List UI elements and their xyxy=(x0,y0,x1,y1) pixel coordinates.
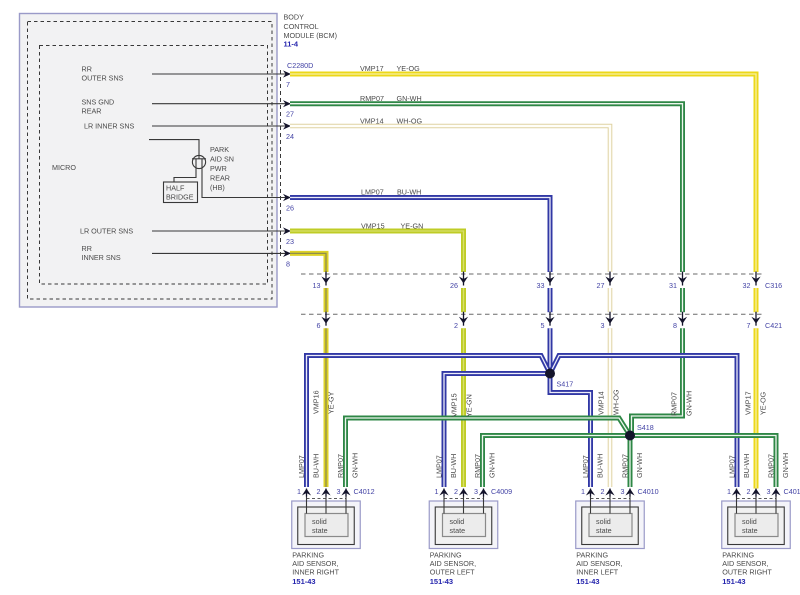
svg-text:YE-GN: YE-GN xyxy=(465,394,474,417)
svg-text:VMP17: VMP17 xyxy=(360,64,384,73)
svg-text:PARK: PARK xyxy=(210,145,229,154)
C316 pin 27 arrow xyxy=(609,272,611,286)
C2280D pin 23 arrow xyxy=(283,227,291,234)
solid state box xyxy=(735,514,778,537)
svg-text:YE-OG: YE-OG xyxy=(759,391,768,415)
HALF BRIDGE box xyxy=(164,182,198,203)
svg-text:C4012: C4012 xyxy=(354,487,375,496)
svg-text:CONTROL: CONTROL xyxy=(284,22,319,31)
C2280D pin 7 arrow xyxy=(283,70,291,77)
svg-text:VMP17: VMP17 xyxy=(744,391,753,415)
C316 pin 33 arrow xyxy=(549,272,551,286)
svg-text:RMP07: RMP07 xyxy=(360,94,384,103)
svg-text:RMP07: RMP07 xyxy=(473,454,482,478)
wire RMP07 GN-WH vertical to jog xyxy=(680,288,685,312)
svg-text:VMP14: VMP14 xyxy=(360,117,384,126)
solid state box xyxy=(305,514,348,537)
svg-text:solid: solid xyxy=(596,517,611,526)
svg-text:solid: solid xyxy=(312,517,327,526)
svg-text:state: state xyxy=(450,526,466,535)
svg-text:C4009: C4009 xyxy=(491,487,512,496)
svg-text:BU-WH: BU-WH xyxy=(312,454,321,478)
svg-text:2: 2 xyxy=(454,321,458,330)
svg-text:S417: S417 xyxy=(557,380,574,389)
wire RMP07 GN-WH horizontal xyxy=(290,104,683,272)
svg-text:151-43: 151-43 xyxy=(292,577,315,586)
wire internal LR OUTER SNS xyxy=(152,230,290,232)
C4010 pin 2 xyxy=(609,496,611,514)
C4010 pin 3 xyxy=(629,496,631,514)
C316 pin 31 arrow xyxy=(682,272,684,286)
C4011 pin 2 xyxy=(755,496,757,514)
svg-text:C4011: C4011 xyxy=(784,487,800,496)
C2280D pin 26 arrow xyxy=(283,194,291,201)
svg-text:VMP16: VMP16 xyxy=(312,390,321,414)
svg-text:REAR: REAR xyxy=(210,174,230,183)
svg-text:33: 33 xyxy=(537,281,545,290)
svg-text:32: 32 xyxy=(743,281,751,290)
connector C421 dashed line xyxy=(301,313,762,315)
connector C4010 dashed line xyxy=(591,498,631,500)
wire internal RR INNER SNS xyxy=(152,252,290,254)
C421 pin 5 arrow xyxy=(549,312,551,326)
svg-text:VMP14: VMP14 xyxy=(597,391,606,415)
svg-text:5: 5 xyxy=(541,321,545,330)
svg-text:151-43: 151-43 xyxy=(576,577,599,586)
svg-text:solid: solid xyxy=(742,517,757,526)
C421 pin 7 arrow xyxy=(755,312,757,326)
svg-text:RR: RR xyxy=(82,65,92,74)
BCM outer dashed boundary xyxy=(28,22,273,300)
splice S418 xyxy=(625,431,635,441)
svg-text:1: 1 xyxy=(297,487,301,496)
svg-text:LMP07: LMP07 xyxy=(297,455,306,478)
svg-text:23: 23 xyxy=(286,237,294,246)
svg-text:RR: RR xyxy=(82,244,92,253)
svg-text:11-4: 11-4 xyxy=(284,40,299,49)
svg-text:LMP07: LMP07 xyxy=(581,455,590,478)
svg-text:S418: S418 xyxy=(637,423,654,432)
C2280D pin 27 arrow xyxy=(283,100,291,107)
svg-text:OUTER LEFT: OUTER LEFT xyxy=(430,568,475,577)
wire VMP16 YE-GY vertical xyxy=(324,288,329,312)
svg-text:3: 3 xyxy=(474,487,478,496)
svg-text:BU-WH: BU-WH xyxy=(596,454,605,478)
C421 pin 2 arrow xyxy=(463,312,465,326)
C421 pin 8 arrow xyxy=(682,312,684,326)
svg-text:26: 26 xyxy=(286,204,294,213)
wire BU-WH branch to sensor outer right xyxy=(550,356,737,488)
svg-text:8: 8 xyxy=(673,321,677,330)
svg-text:3: 3 xyxy=(601,321,605,330)
svg-text:3: 3 xyxy=(337,487,341,496)
power symbol PARK AID SN PWR REAR (HB) xyxy=(192,155,205,168)
svg-text:27: 27 xyxy=(597,281,605,290)
svg-text:YE-OG: YE-OG xyxy=(397,64,421,73)
HB right prong to pin 26 xyxy=(202,159,290,198)
svg-text:1: 1 xyxy=(581,487,585,496)
svg-text:YE-GN: YE-GN xyxy=(401,222,424,231)
C421 pin 6 arrow xyxy=(325,312,327,326)
C316 pin 13 arrow xyxy=(325,272,327,286)
wire GN-WH branch to sensor inner right xyxy=(346,418,631,487)
svg-text:VMP15: VMP15 xyxy=(361,222,385,231)
svg-text:151-43: 151-43 xyxy=(722,577,745,586)
svg-text:RMP07: RMP07 xyxy=(621,454,630,478)
svg-text:WH-OG: WH-OG xyxy=(612,389,621,415)
MICRO dashed box xyxy=(40,46,268,285)
svg-text:GN-WH: GN-WH xyxy=(397,94,422,103)
svg-text:(HB): (HB) xyxy=(210,183,225,192)
connector C4009 dashed line xyxy=(444,498,484,500)
C2280D pin 24 arrow xyxy=(283,122,291,129)
C4011 pin 3 xyxy=(775,496,777,514)
connector C4012 dashed line xyxy=(307,498,347,500)
svg-text:LMP07: LMP07 xyxy=(728,455,737,478)
wire VMP16 YE-GY horizontal xyxy=(290,253,326,272)
svg-text:1: 1 xyxy=(727,487,731,496)
wire VMP17 YE-OG vertical xyxy=(754,288,759,312)
svg-text:GN-WH: GN-WH xyxy=(488,453,497,478)
svg-text:8: 8 xyxy=(286,259,290,268)
svg-text:BODY: BODY xyxy=(284,13,305,22)
wire VMP14 WH-OG horizontal xyxy=(290,126,610,272)
svg-text:6: 6 xyxy=(317,321,321,330)
wire internal RR OUTER SNS xyxy=(152,73,290,75)
C4012 pin 3 xyxy=(345,496,347,514)
svg-text:state: state xyxy=(596,526,612,535)
svg-text:BU-WH: BU-WH xyxy=(742,454,751,478)
svg-text:YE-GY: YE-GY xyxy=(327,391,336,414)
svg-text:GN-WH: GN-WH xyxy=(685,391,694,416)
C4009 pin 3 xyxy=(483,496,485,514)
svg-text:3: 3 xyxy=(767,487,771,496)
svg-text:2: 2 xyxy=(317,487,321,496)
connector C2280D dashed line xyxy=(280,70,282,258)
svg-text:C2280D: C2280D xyxy=(287,61,313,70)
parking aid sensor INNER RIGHT box xyxy=(292,501,361,549)
svg-text:BU-WH: BU-WH xyxy=(397,188,421,197)
wire internal SNS GND REAR xyxy=(152,103,290,105)
svg-text:7: 7 xyxy=(747,321,751,330)
svg-text:WH-OG: WH-OG xyxy=(397,117,423,126)
C4012 pin 2 xyxy=(325,496,327,514)
svg-text:31: 31 xyxy=(669,281,677,290)
wire BU-WH branch to sensor outer left xyxy=(444,374,550,488)
svg-text:C421: C421 xyxy=(765,321,782,330)
C4012 pin 1 xyxy=(306,496,308,514)
svg-text:OUTER RIGHT: OUTER RIGHT xyxy=(722,568,772,577)
svg-text:LMP07: LMP07 xyxy=(361,188,384,197)
svg-text:C316: C316 xyxy=(765,281,782,290)
svg-text:REAR: REAR xyxy=(82,107,102,116)
C2280D pin 8 arrow xyxy=(283,250,291,257)
svg-text:1: 1 xyxy=(435,487,439,496)
svg-text:151-43: 151-43 xyxy=(430,577,453,586)
svg-text:solid: solid xyxy=(450,517,465,526)
C316 pin 32 arrow xyxy=(755,272,757,286)
wire VMP15 YE-GN horizontal xyxy=(290,231,464,272)
svg-text:AID SN: AID SN xyxy=(210,155,234,164)
C4011 pin 1 xyxy=(736,496,738,514)
svg-text:GN-WH: GN-WH xyxy=(781,453,790,478)
solid state box xyxy=(443,514,486,537)
BCM module box xyxy=(20,14,278,308)
connector C316 dashed line xyxy=(301,273,762,275)
C4009 pin 2 xyxy=(463,496,465,514)
C421 pin 3 arrow xyxy=(609,312,611,326)
wire GN-WH branch to sensor inner left xyxy=(628,436,633,488)
C316 pin 26 arrow xyxy=(463,272,465,286)
svg-text:2: 2 xyxy=(454,487,458,496)
svg-text:RMP07: RMP07 xyxy=(670,392,679,416)
svg-text:26: 26 xyxy=(450,281,458,290)
wire LMP07 BU-WH vertical xyxy=(548,288,553,312)
parking aid sensor INNER LEFT box xyxy=(576,501,645,549)
wire GN-WH branch to sensors outer left / outer right xyxy=(483,436,777,488)
splice S417 xyxy=(545,369,555,379)
svg-text:INNER RIGHT: INNER RIGHT xyxy=(292,568,339,577)
svg-text:2: 2 xyxy=(601,487,605,496)
svg-text:RMP07: RMP07 xyxy=(336,454,345,478)
svg-text:GN-WH: GN-WH xyxy=(351,453,360,478)
svg-text:OUTER SNS: OUTER SNS xyxy=(82,74,124,83)
svg-text:27: 27 xyxy=(286,110,294,119)
HB left prong to half bridge xyxy=(174,159,196,182)
svg-text:INNER LEFT: INNER LEFT xyxy=(576,568,619,577)
svg-text:2: 2 xyxy=(747,487,751,496)
svg-text:LMP07: LMP07 xyxy=(435,455,444,478)
wire BU-WH branch to sensor inner right xyxy=(307,356,551,488)
svg-text:C4010: C4010 xyxy=(638,487,659,496)
svg-text:MICRO: MICRO xyxy=(52,163,76,172)
wire internal LR INNER SNS xyxy=(152,125,290,127)
parking aid sensor OUTER LEFT box xyxy=(429,501,498,549)
svg-text:3: 3 xyxy=(621,487,625,496)
svg-text:VMP15: VMP15 xyxy=(450,393,459,417)
wire VMP14 WH-OG vertical xyxy=(608,288,613,312)
svg-text:BU-WH: BU-WH xyxy=(449,454,458,478)
wire internal park aid feed xyxy=(149,140,199,156)
wire VMP17 YE-OG horizontal xyxy=(290,74,756,272)
svg-text:LR OUTER SNS: LR OUTER SNS xyxy=(80,227,133,236)
svg-text:7: 7 xyxy=(286,80,290,89)
wire VMP15 YE-GN vertical xyxy=(461,288,466,312)
svg-text:13: 13 xyxy=(313,281,321,290)
svg-text:RMP07: RMP07 xyxy=(767,454,776,478)
svg-text:state: state xyxy=(742,526,758,535)
svg-text:LR INNER SNS: LR INNER SNS xyxy=(84,122,135,131)
solid state box xyxy=(589,514,632,537)
svg-text:PWR: PWR xyxy=(210,164,227,173)
svg-text:24: 24 xyxy=(286,132,294,141)
wire LMP07 BU-WH horizontal xyxy=(290,198,550,273)
svg-text:GN-WH: GN-WH xyxy=(635,453,644,478)
wire BU-WH branch to sensor inner left xyxy=(550,374,591,488)
parking aid sensor OUTER RIGHT box xyxy=(722,501,791,549)
svg-text:HALF: HALF xyxy=(166,184,185,193)
svg-text:SNS GND: SNS GND xyxy=(82,98,115,107)
C4010 pin 1 xyxy=(590,496,592,514)
svg-text:BRIDGE: BRIDGE xyxy=(166,193,194,202)
C4009 pin 1 xyxy=(443,496,445,514)
connector C4011 dashed line xyxy=(737,498,777,500)
svg-text:state: state xyxy=(312,526,328,535)
svg-text:INNER SNS: INNER SNS xyxy=(82,253,121,262)
